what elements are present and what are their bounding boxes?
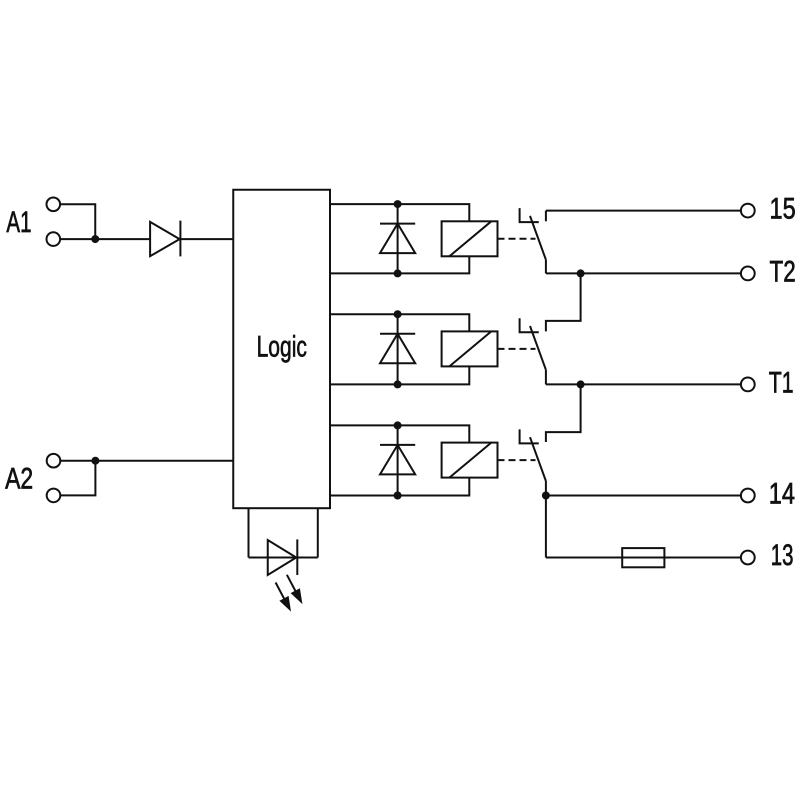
contact S1 fixed stub right	[545, 211, 547, 222]
wire actuation link K2 (dashed)	[498, 348, 536, 350]
wire T2 rail	[546, 272, 741, 274]
wire S2 lever to T1 rail	[545, 370, 547, 385]
diode DF3 freewheel	[380, 445, 415, 475]
junction coil1 bottom	[394, 269, 402, 277]
wire S3 lever to 14 rail	[545, 481, 547, 496]
LED emission arrow 2	[287, 575, 302, 603]
svg-text:15: 15	[770, 192, 796, 225]
wire A2 lower to junction	[60, 461, 95, 496]
junction coil3 top	[394, 421, 402, 429]
wire coil1 bottom rail	[330, 256, 469, 273]
junction A2	[91, 457, 99, 465]
relay coil K3	[442, 443, 498, 478]
wire A1 lower to diode	[60, 238, 150, 240]
diode DF1 freewheel	[380, 224, 415, 254]
wire A2 upper to Logic	[60, 460, 233, 462]
terminal 13	[741, 551, 755, 565]
LED loop left wire	[248, 508, 250, 557]
diode DF2 freewheel	[380, 334, 415, 364]
LED loop bottom wire	[249, 557, 318, 559]
junction A1	[91, 235, 99, 243]
junction coil1 top	[394, 200, 402, 208]
wire 13 rail	[546, 557, 741, 559]
fuse F1	[622, 548, 664, 567]
contact S3 fixed bracket left	[520, 429, 539, 443]
wire 14 junction down to 13 rail	[545, 496, 547, 558]
terminal 15	[741, 204, 755, 218]
wire diode DF2 vertical	[397, 314, 399, 384]
wire 14 rail	[546, 495, 741, 497]
wire coil3 bottom rail	[330, 478, 469, 496]
relay coil K2	[442, 331, 498, 366]
wire coil2 top rail	[330, 314, 469, 331]
terminal 14	[741, 489, 755, 503]
wire S1 lever to T2 rail	[545, 260, 547, 274]
LED loop right wire	[317, 508, 319, 557]
wire actuation link K3 (dashed)	[498, 459, 536, 461]
svg-text:14: 14	[769, 478, 795, 511]
contact S3 lever	[530, 437, 546, 481]
junction coil3 bottom	[394, 492, 402, 500]
junction T1 feed	[577, 380, 585, 388]
wire feed T1 to contact S3	[546, 384, 581, 442]
svg-text:Logic: Logic	[257, 331, 307, 364]
terminal T1	[741, 378, 755, 392]
wire diode DF1 vertical	[397, 204, 399, 273]
wire diode DF3 vertical	[397, 425, 399, 495]
svg-text:13: 13	[771, 539, 794, 572]
wire diode to Logic	[180, 238, 233, 240]
terminal A2 upper	[47, 454, 61, 468]
junction 14	[542, 492, 550, 500]
LED indicator diode	[268, 539, 298, 575]
LED emission arrow 1	[276, 583, 291, 611]
svg-text:A1: A1	[6, 206, 31, 239]
wire coil2 bottom rail	[330, 366, 469, 384]
terminal A1 lower	[47, 232, 61, 246]
wire T1 rail	[546, 383, 741, 385]
svg-text:T1: T1	[769, 366, 794, 399]
junction coil2 top	[394, 310, 402, 318]
junction T2 feed	[577, 269, 585, 277]
contact S2 lever	[530, 326, 546, 370]
wire coil1 top rail	[330, 204, 469, 221]
wire feed T2 to contact S2	[546, 273, 581, 331]
relay coil K1	[442, 221, 498, 256]
diode D input (series, anode left)	[150, 221, 180, 257]
terminal A1 upper	[47, 198, 61, 212]
junction coil2 bottom	[394, 380, 402, 388]
terminal T2	[741, 267, 755, 281]
contact S1 fixed bracket left	[520, 208, 539, 222]
wire actuation link K1 (dashed)	[498, 238, 536, 240]
terminal A2 lower	[47, 489, 61, 503]
wire S1 to terminal 15	[546, 210, 741, 212]
svg-text:T2: T2	[770, 255, 796, 288]
wire coil3 top rail	[330, 425, 469, 442]
contact S2 fixed bracket left	[520, 318, 539, 332]
wire A1 upper to junction	[60, 204, 95, 239]
contact S1 lever	[530, 216, 546, 260]
svg-text:A2: A2	[5, 463, 33, 496]
op-amp U1 logic block box	[233, 190, 330, 508]
